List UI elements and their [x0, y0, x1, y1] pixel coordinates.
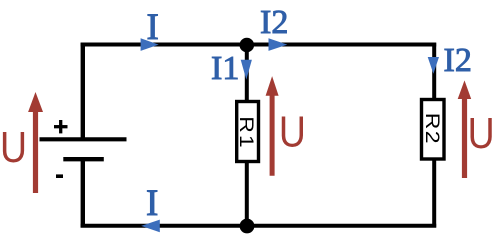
wire: middle vertical upper (node A down to R1) — [245, 45, 249, 102]
resistor R2 body — [422, 100, 445, 160]
voltage arrow U across R1 (red, pointing up) — [266, 76, 279, 176]
current label I (top) — [147, 7, 159, 48]
current label I2 (right) — [444, 42, 472, 79]
svg-text:I1: I1 — [211, 50, 239, 87]
current arrow I1 (middle wire below node A, pointing down) — [241, 60, 252, 80]
wire: right vertical lower (R2 down to bottom-right corner) — [432, 159, 436, 228]
battery - terminal label — [56, 174, 63, 178]
wire: middle vertical lower (R1 down to node B) — [245, 161, 249, 226]
battery voltage source: negative plate (short) — [63, 157, 104, 161]
current arrow I2 (top wire after node A, pointing right) — [269, 38, 288, 51]
voltage arrow U across source (red, pointing up) — [28, 92, 43, 193]
resistor R1 body — [237, 102, 259, 162]
wire: left vertical lower (battery - plate down to bottom-left corner) — [81, 159, 85, 227]
node A: top junction dot — [240, 38, 255, 53]
svg-text:U: U — [468, 108, 495, 158]
wire: bottom horizontal (bottom-left corner to bottom-right corner) — [81, 224, 437, 228]
node B: bottom junction dot — [240, 219, 255, 234]
voltage label U (R2) — [468, 108, 495, 158]
current label I1 — [211, 50, 239, 87]
svg-text:I2: I2 — [444, 42, 472, 79]
svg-text:R2: R2 — [421, 113, 443, 145]
battery + terminal label — [54, 120, 68, 133]
voltage arrow U across R2 (red, pointing up) — [458, 80, 472, 178]
svg-text:R1: R1 — [235, 116, 257, 149]
svg-text:I: I — [146, 183, 158, 224]
wire: top horizontal (top-left corner to top-right corner) — [81, 43, 437, 47]
voltage label U (source) — [0, 122, 27, 172]
current arrow I (top left wire, pointing right) — [141, 38, 159, 51]
resistor R2 reference label — [421, 113, 443, 145]
svg-text:U: U — [0, 122, 27, 172]
svg-text:U: U — [279, 106, 306, 156]
resistor R1 reference label — [235, 116, 257, 149]
wire: right vertical upper (top-right corner down to R2) — [432, 43, 436, 99]
battery voltage source: positive plate (long) — [40, 137, 127, 141]
svg-text:I2: I2 — [260, 4, 288, 41]
current arrow I (bottom wire, pointing left) — [141, 220, 160, 233]
wire: left vertical upper (top-left corner down to battery + plate) — [81, 43, 85, 139]
current label I2 (top) — [260, 4, 288, 41]
current label I (bottom) — [146, 183, 158, 224]
svg-text:I: I — [147, 7, 159, 48]
voltage label U (R1) — [279, 106, 306, 156]
current arrow I2 (right wire, pointing down) — [428, 57, 439, 74]
